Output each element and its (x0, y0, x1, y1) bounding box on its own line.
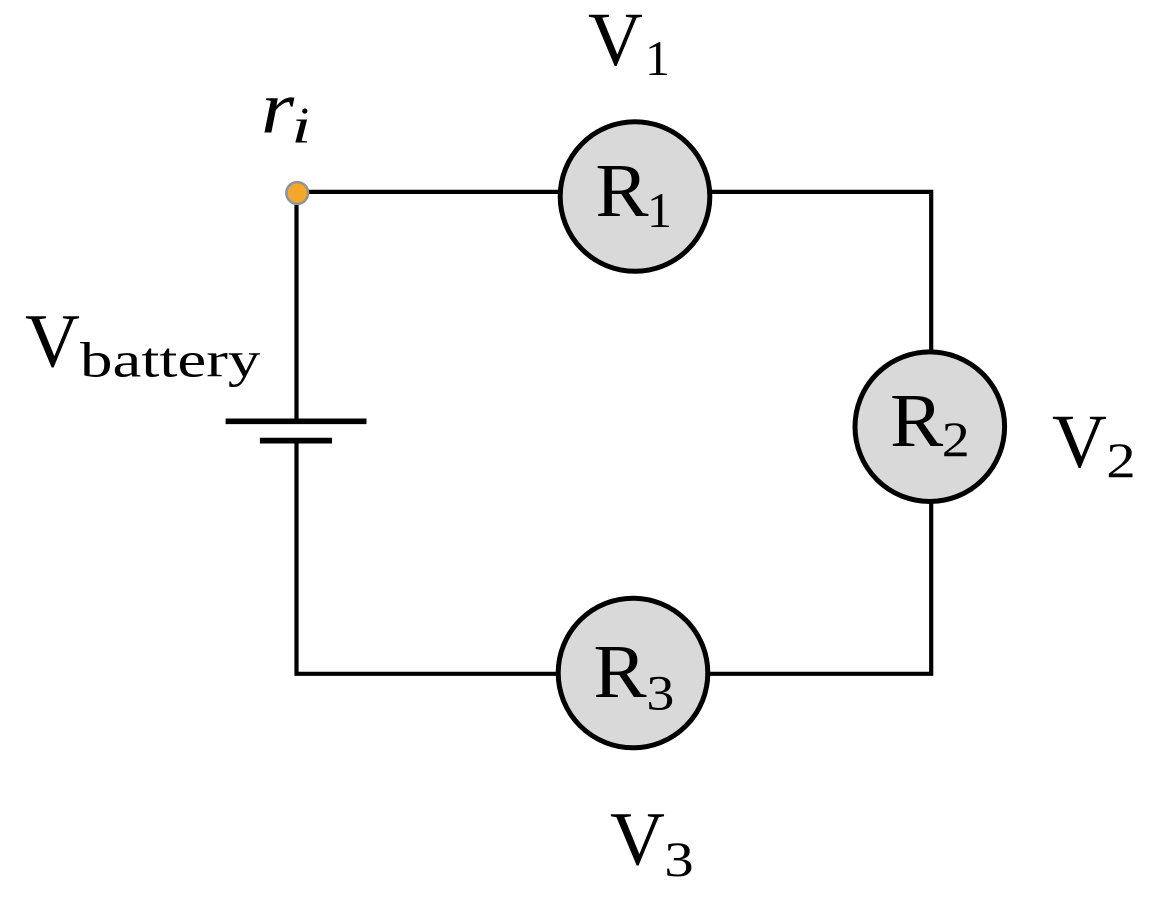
svg-text:2: 2 (942, 413, 970, 468)
svg-text:3: 3 (664, 831, 694, 887)
node r_i orange dot (286, 182, 308, 204)
svg-text:1: 1 (647, 182, 672, 238)
svg-text:battery: battery (80, 331, 260, 387)
svg-text:ı: ı (292, 99, 312, 154)
label R3 (593, 630, 674, 721)
svg-text:V: V (588, 0, 643, 82)
label R1 (595, 149, 672, 239)
label V3 (610, 798, 694, 887)
svg-text:1: 1 (645, 30, 670, 86)
svg-text:V: V (610, 798, 665, 882)
svg-text:R: R (593, 630, 646, 714)
svg-text:3: 3 (646, 666, 674, 721)
resistor R1 circle (560, 122, 710, 272)
label V_battery (25, 300, 260, 388)
wire loop: top, right, bottom, left-lower (297, 192, 932, 674)
resistor R3 circle (558, 598, 708, 748)
label R2 (890, 379, 970, 468)
svg-text:R: R (890, 379, 943, 463)
svg-text:R: R (595, 149, 648, 233)
battery V_battery top plate (long) (226, 418, 367, 424)
svg-text:V: V (1052, 400, 1107, 484)
label V2 (1052, 400, 1136, 488)
battery V_battery bottom plate (short) (260, 438, 332, 444)
svg-text:r: r (261, 68, 295, 150)
wire from node down to battery top plate (294, 193, 298, 420)
svg-text:2: 2 (1106, 432, 1136, 488)
label r_i (261, 68, 312, 154)
svg-text:V: V (25, 300, 80, 384)
label V1 (588, 0, 670, 86)
resistor R2 circle (855, 352, 1005, 502)
